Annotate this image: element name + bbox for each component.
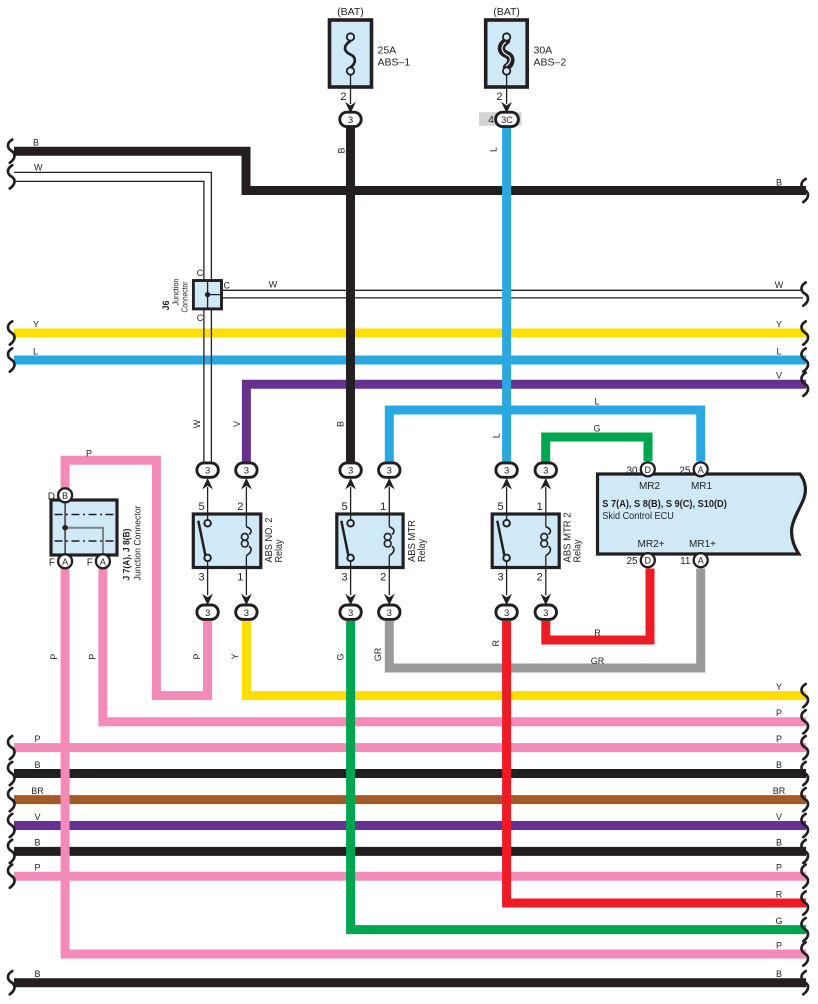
svg-text:D: D xyxy=(645,556,652,566)
svg-text:MR2+: MR2+ xyxy=(638,539,665,550)
connector 3 above relay3 pin1 xyxy=(535,463,556,477)
svg-text:G: G xyxy=(593,424,600,434)
svg-text:Y: Y xyxy=(776,319,782,329)
svg-text:11: 11 xyxy=(680,556,691,567)
svg-text:B: B xyxy=(776,838,782,848)
svg-text:2: 2 xyxy=(537,572,543,584)
J7/J8 terminal A2 xyxy=(96,554,110,568)
svg-text:P: P xyxy=(34,863,40,873)
squiggles right bottom xyxy=(801,684,808,707)
svg-text:ABS–2: ABS–2 xyxy=(534,57,567,69)
junction connector J7/J8 xyxy=(51,500,117,556)
svg-text:1: 1 xyxy=(237,572,243,584)
wire B vertical from fuse1 to relay2 xyxy=(346,126,355,462)
svg-text:R: R xyxy=(776,889,783,899)
connector 3 above relay1 pin2 xyxy=(236,463,257,477)
svg-text:B: B xyxy=(337,147,347,153)
wire L blue vertical from fuse2 to relay3 xyxy=(502,126,511,462)
svg-text:P: P xyxy=(34,734,40,744)
wire B thick top-left to right xyxy=(14,151,806,190)
svg-text:25: 25 xyxy=(626,556,638,567)
wire P pink full horizontal 2 xyxy=(14,872,806,881)
wire B black bottom horizontal xyxy=(14,978,806,987)
svg-text:MR1: MR1 xyxy=(691,481,713,492)
svg-text:D: D xyxy=(48,491,55,502)
wire L blue from ECU MR1 to relay2 coil xyxy=(389,410,700,462)
connector 3 above relay2 pin5 xyxy=(340,463,361,477)
fuse1 arrow xyxy=(345,102,356,114)
svg-text:2: 2 xyxy=(237,501,243,513)
svg-text:Y: Y xyxy=(776,682,782,692)
relay ABS MTR 2 xyxy=(492,514,559,568)
svg-text:A: A xyxy=(698,556,704,566)
svg-text:V: V xyxy=(776,371,782,381)
svg-text:D: D xyxy=(645,465,652,475)
wire G green from relay2 pin3 to right edge xyxy=(351,621,806,930)
svg-text:G: G xyxy=(335,653,345,660)
wire L blue horizontal xyxy=(14,356,806,365)
ECU terminal 30(D) xyxy=(641,462,655,476)
squiggle right Y xyxy=(801,321,808,344)
svg-text:B: B xyxy=(776,178,782,188)
wire V purple full horizontal xyxy=(14,821,806,830)
wire G green from ECU MR2 to relay3 coil xyxy=(546,437,648,462)
svg-text:B: B xyxy=(34,760,40,770)
wire Y yellow from relay1 pin1 to right edge xyxy=(246,621,806,696)
relay1 pin1 lead + arrow + connector 3 xyxy=(245,568,247,596)
ECU terminal 25(A) xyxy=(694,462,708,476)
svg-text:A: A xyxy=(62,557,68,567)
svg-text:B: B xyxy=(776,760,782,770)
svg-text:Relay: Relay xyxy=(572,539,584,563)
svg-text:30A: 30A xyxy=(534,45,553,57)
wire BR brown full horizontal xyxy=(14,795,806,804)
svg-text:L: L xyxy=(776,346,781,356)
connector 3C highlight xyxy=(479,112,522,126)
wire P pink from J7/J8 A2 to right edge xyxy=(103,568,806,722)
svg-text:R: R xyxy=(594,628,601,638)
fuse2 arrow xyxy=(501,102,512,114)
wire R red from relay3 pin3 to right edge xyxy=(507,621,806,903)
svg-text:2: 2 xyxy=(496,91,502,103)
svg-text:Junction Connector: Junction Connector xyxy=(133,506,144,581)
wire P pink full horizontal xyxy=(14,743,806,752)
connector 3 below fuse1 xyxy=(340,112,361,126)
svg-text:B: B xyxy=(336,421,346,427)
skid control ECU box xyxy=(598,474,806,554)
svg-text:4: 4 xyxy=(488,114,494,126)
svg-text:5: 5 xyxy=(341,501,347,513)
squiggles left bottom xyxy=(8,736,15,759)
wire Y yellow horizontal xyxy=(14,329,806,338)
squiggle left W xyxy=(8,165,15,188)
wire W white below J6 to relay1 (outline pair) xyxy=(203,309,205,463)
relay3 pin2 lead + arrow + connector 3 xyxy=(545,568,547,596)
svg-text:L: L xyxy=(491,433,501,438)
relay ABS NO.2 xyxy=(193,514,260,568)
svg-text:B: B xyxy=(776,969,782,979)
svg-text:3: 3 xyxy=(198,572,204,584)
svg-text:25: 25 xyxy=(679,465,691,476)
svg-text:Relay: Relay xyxy=(416,538,428,562)
svg-text:1: 1 xyxy=(380,501,386,513)
fuse1 pin 2 lead xyxy=(350,75,352,104)
svg-text:P: P xyxy=(776,734,782,744)
svg-text:A: A xyxy=(100,557,106,567)
svg-text:S 7(A), S 8(B), S 9(C), S10(D): S 7(A), S 8(B), S 9(C), S10(D) xyxy=(602,498,727,510)
svg-text:P: P xyxy=(776,863,782,873)
J7/J8 terminal A1 xyxy=(58,554,72,568)
svg-text:P: P xyxy=(776,940,782,950)
svg-text:3: 3 xyxy=(341,572,347,584)
fuse 25A ABS-1 xyxy=(330,20,372,87)
squiggle right L xyxy=(801,348,808,371)
wire P pink from relay1 pin3 to J7/J8 B xyxy=(65,460,208,695)
squiggle left B xyxy=(8,140,15,163)
svg-text:5: 5 xyxy=(497,501,503,513)
svg-text:BR: BR xyxy=(31,786,44,796)
svg-text:A: A xyxy=(698,465,704,475)
wire W white top-left (outline pair) xyxy=(14,172,211,280)
relay ABS MTR xyxy=(337,514,403,568)
svg-text:J 7(A), J 8(B): J 7(A), J 8(B) xyxy=(122,529,133,581)
svg-text:25A: 25A xyxy=(378,45,397,57)
relay3 pin3 lead + arrow + connector 3 xyxy=(506,568,508,596)
squiggle right V xyxy=(801,373,808,396)
connector 3C oval xyxy=(496,112,519,126)
svg-text:V: V xyxy=(232,421,242,427)
svg-text:Skid Control ECU: Skid Control ECU xyxy=(602,511,674,522)
svg-text:B: B xyxy=(62,491,68,501)
svg-text:Y: Y xyxy=(230,653,240,659)
svg-text:2: 2 xyxy=(380,572,386,584)
svg-text:F: F xyxy=(87,557,93,568)
relay1 pin3 lead + arrow + connector 3 xyxy=(207,568,209,596)
svg-text:L: L xyxy=(489,147,499,152)
svg-text:W: W xyxy=(192,419,202,428)
svg-text:Y: Y xyxy=(33,319,39,329)
svg-text:R: R xyxy=(491,639,501,646)
squiggle left L xyxy=(8,348,15,371)
svg-text:P: P xyxy=(192,653,202,659)
fuse 30A ABS-2 (fusible link) xyxy=(486,20,528,87)
svg-text:B: B xyxy=(33,138,39,148)
svg-text:P: P xyxy=(87,654,97,660)
svg-text:GR: GR xyxy=(373,647,383,661)
svg-text:3C: 3C xyxy=(501,115,513,125)
svg-text:Junction: Junction xyxy=(171,279,180,306)
wire P pink from J7/J8 A1 to right edge xyxy=(65,568,806,954)
fuse2 pin 2 lead xyxy=(506,75,508,104)
svg-text:BR: BR xyxy=(773,786,786,796)
squiggle right W xyxy=(801,283,808,306)
svg-text:W: W xyxy=(269,280,278,290)
svg-text:1: 1 xyxy=(537,501,543,513)
svg-text:Connector: Connector xyxy=(181,281,190,312)
svg-text:30: 30 xyxy=(626,465,638,476)
svg-text:L: L xyxy=(33,346,38,356)
svg-text:P: P xyxy=(49,654,59,660)
svg-text:F: F xyxy=(49,557,55,568)
svg-text:(BAT): (BAT) xyxy=(337,6,364,18)
svg-text:3: 3 xyxy=(497,572,503,584)
svg-text:P: P xyxy=(86,449,92,459)
relay2 pin2 lead + arrow + connector 3 xyxy=(388,568,390,596)
svg-text:5: 5 xyxy=(198,501,204,513)
wire W white from J6 to right edge (outline pair) xyxy=(222,289,804,291)
svg-text:V: V xyxy=(776,812,782,822)
svg-text:GR: GR xyxy=(591,656,605,666)
svg-text:ABS–1: ABS–1 xyxy=(378,57,411,69)
svg-text:(BAT): (BAT) xyxy=(493,6,520,18)
svg-text:Relay: Relay xyxy=(273,539,285,563)
wire GR gray from ECU 11(A) to relay2 pin2 xyxy=(389,569,700,669)
svg-text:2: 2 xyxy=(340,91,346,103)
svg-text:L: L xyxy=(594,397,599,407)
svg-text:C: C xyxy=(197,313,204,323)
wire V purple from relay1 coil to right edge xyxy=(246,384,806,462)
relay2 pin3 lead + arrow + connector 3 xyxy=(350,568,352,596)
svg-text:C: C xyxy=(197,268,204,278)
svg-text:W: W xyxy=(775,280,784,290)
svg-text:V: V xyxy=(34,812,40,822)
wire B black full horizontal xyxy=(14,769,806,778)
svg-text:MR1+: MR1+ xyxy=(689,539,716,550)
svg-text:C: C xyxy=(224,281,231,291)
J7/J8 terminal B xyxy=(58,488,72,502)
connector 3 above relay2 pin1 xyxy=(379,463,400,477)
svg-text:P: P xyxy=(776,708,782,718)
svg-text:J6: J6 xyxy=(161,300,171,310)
svg-text:B: B xyxy=(34,838,40,848)
squiggle right B xyxy=(801,179,808,202)
ECU terminal 25(D) xyxy=(641,553,655,567)
squiggle left Y xyxy=(8,321,15,344)
svg-text:B: B xyxy=(34,969,40,979)
wire R red from ECU 25(D) to relay3 pin2 xyxy=(546,569,650,641)
svg-text:G: G xyxy=(775,916,782,926)
wire B black full horizontal 2 xyxy=(14,847,806,856)
ECU terminal 11(A) xyxy=(694,553,708,567)
connector 3 above relay3 pin5 xyxy=(496,463,517,477)
svg-text:W: W xyxy=(34,163,43,173)
junction connector J6 xyxy=(193,281,221,309)
connector 3 above relay1 pin5 xyxy=(197,463,218,477)
svg-text:MR2: MR2 xyxy=(639,481,661,492)
